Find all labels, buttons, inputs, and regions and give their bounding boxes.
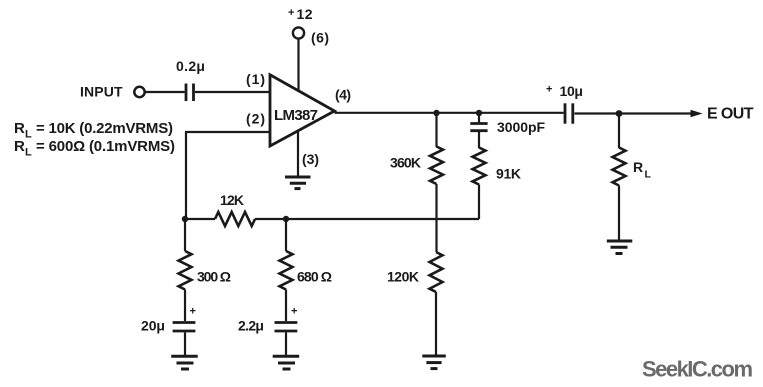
terminal V+ (pin 6) xyxy=(293,27,304,38)
resistor R 300 ohm xyxy=(179,251,192,290)
svg-text:+: + xyxy=(190,306,196,318)
wire feedback bus left xyxy=(185,218,215,220)
resistor RL xyxy=(613,148,626,186)
capacitor C4 20u xyxy=(173,323,196,332)
svg-text:LM387: LM387 xyxy=(274,107,318,124)
wire node to C3 xyxy=(478,113,480,122)
svg-text:INPUT: INPUT xyxy=(80,84,123,100)
ground RL xyxy=(607,241,633,254)
wire C3 to R 91K xyxy=(478,132,480,148)
wire R 360K to R 120K xyxy=(435,184,437,252)
ground 120K xyxy=(422,356,446,369)
wire pin 2 to feedback node xyxy=(186,132,270,219)
wire R RL to ground xyxy=(618,186,620,241)
svg-text:(2): (2) xyxy=(246,111,265,127)
capacitor C2 10u xyxy=(565,103,573,123)
svg-text:(4): (4) xyxy=(335,87,351,103)
svg-text:(6): (6) xyxy=(311,30,329,46)
wire node to R RL xyxy=(618,114,620,149)
wire R 91K to feedback bus xyxy=(478,185,480,220)
ground 2.2u xyxy=(273,356,300,369)
svg-text:20μ: 20μ xyxy=(141,318,165,334)
wire input terminal to C1 xyxy=(145,91,185,93)
svg-text:91K: 91K xyxy=(496,166,521,182)
svg-text:300 Ω: 300 Ω xyxy=(197,269,231,285)
node output/RL xyxy=(616,110,623,117)
wire R 120K to ground xyxy=(435,292,437,355)
svg-text:E OUT: E OUT xyxy=(707,106,754,123)
wire feedback bus right xyxy=(255,218,479,220)
resistor R 360K xyxy=(430,147,443,185)
wire C1 to pin 1 xyxy=(195,91,270,93)
svg-text:360K: 360K xyxy=(390,155,421,171)
wire node to R 300 xyxy=(184,219,186,251)
node output/360K xyxy=(433,110,439,116)
wire node to R 680 xyxy=(285,219,287,251)
wire V+ to op-amp xyxy=(297,39,299,91)
node feedback/300 xyxy=(182,216,188,222)
wire node to R 360K xyxy=(435,113,437,147)
svg-text:+: + xyxy=(546,84,552,96)
node feedback/680 xyxy=(283,216,289,222)
svg-text:+: + xyxy=(291,306,297,318)
wire C5 to ground xyxy=(285,333,287,356)
svg-text:0.2μ: 0.2μ xyxy=(176,58,205,74)
wire R 300 to C4 xyxy=(184,290,186,322)
svg-text:+: + xyxy=(288,7,294,19)
svg-text:680 Ω: 680 Ω xyxy=(297,269,332,285)
svg-text:2.2μ: 2.2μ xyxy=(238,318,264,334)
wire R 680 to C5 xyxy=(285,290,287,322)
svg-text:12: 12 xyxy=(297,6,313,22)
wire pin 3 to ground xyxy=(297,131,299,177)
wire C2 to E OUT xyxy=(575,112,693,114)
ground 20u xyxy=(171,356,198,369)
svg-text:3000pF: 3000pF xyxy=(497,119,545,135)
capacitor C1 0.2u xyxy=(186,84,194,102)
output arrow xyxy=(691,110,703,117)
op-amp U1 LM387 xyxy=(270,75,335,146)
resistor R 680 ohm xyxy=(280,251,293,290)
resistor R 120K xyxy=(430,252,443,292)
svg-text:12K: 12K xyxy=(220,192,244,208)
node output/3000pF xyxy=(476,110,482,116)
capacitor C3 3000pF xyxy=(470,124,487,131)
svg-text:120K: 120K xyxy=(387,269,419,285)
wire C4 to ground xyxy=(184,333,186,356)
input terminal xyxy=(134,87,144,97)
svg-text:SeekIC.com: SeekIC.com xyxy=(642,357,753,382)
svg-text:(3): (3) xyxy=(302,151,319,167)
resistor R 91K xyxy=(473,148,486,185)
svg-text:10μ: 10μ xyxy=(560,83,584,99)
capacitor C5 2.2u xyxy=(275,323,298,332)
resistor R 12K xyxy=(215,212,255,226)
wire output (pin 4 to C2) xyxy=(335,112,564,114)
ground op-amp pin 3 xyxy=(285,177,311,189)
svg-text:(1): (1) xyxy=(246,71,265,87)
